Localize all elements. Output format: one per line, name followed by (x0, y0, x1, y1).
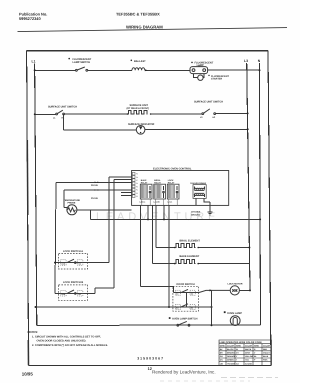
bus N (259, 63, 260, 325)
svg-text:RED: RED (263, 348, 268, 351)
svg-text:TEMPERATURE: TEMPERATURE (64, 199, 81, 202)
svg-text:L2 L1B: L2 L1B (154, 201, 161, 204)
feeder stub to neutral 2 (163, 205, 165, 219)
svg-text:10/95: 10/95 (22, 371, 34, 376)
wire probe out (77, 209, 132, 211)
wire probe P5 to EOC (64, 190, 132, 208)
svg-text:P4: P4 (136, 189, 138, 192)
switch fluorescent lamp switch (68, 58, 70, 60)
svg-text:COLOR: COLOR (227, 344, 234, 347)
wire probe P6 to EOC (55, 182, 132, 293)
svg-text:BLACK: BLACK (227, 348, 234, 351)
EOC electronic oven control box (132, 171, 229, 206)
svg-text:TRACER: TRACER (227, 362, 236, 365)
door switch connector (186, 293, 188, 307)
feeder broil wire (155, 205, 157, 247)
svg-text:COLOR: COLOR (245, 344, 252, 347)
wire neutral return to N (91, 210, 261, 219)
svg-text:L1: L1 (32, 59, 36, 63)
svg-text:GRAY: GRAY (245, 352, 251, 355)
frame left edge darker segments (26, 140, 29, 215)
diagram frame (27, 51, 271, 366)
svg-text:YELLOW: YELLOW (245, 355, 253, 358)
fluorescent starter (194, 74, 205, 78)
feeder stub to neutral 1 (147, 205, 149, 219)
svg-text:Rendered by LeadVenture, Inc.: Rendered by LeadVenture, Inc. (152, 370, 216, 375)
svg-text:L3: L3 (244, 59, 248, 63)
svg-text:BROIL ELEMENT: BROIL ELEMENT (180, 239, 201, 242)
svg-text:P5: P5 (136, 185, 138, 188)
svg-text:1. CIRCUIT SHOWN WITH ALL CONT: 1. CIRCUIT SHOWN WITH ALL CONTROLS SET T… (32, 336, 101, 339)
svg-text:P6 1/B: P6 1/B (91, 184, 98, 187)
wire row A L1 to junction (35, 306, 211, 308)
svg-text:LINE OPERATED WIRE COLOR CODE: LINE OPERATED WIRE COLOR CODE (220, 341, 263, 344)
svg-text:LOCK SWITCH A: LOCK SWITCH A (63, 250, 83, 253)
svg-text:WIRE: WIRE (236, 344, 242, 347)
svg-text:ELECTRONIC OVEN CONTROL: ELECTRONIC OVEN CONTROL (153, 168, 192, 171)
svg-text:GREEN: GREEN (227, 359, 234, 362)
header rule (18, 28, 288, 32)
svg-text:P8: P8 (136, 176, 138, 179)
svg-text:LAMP SWITCH: LAMP SWITCH (73, 61, 91, 64)
svg-text:SURFACE UNIT SWITCH: SURFACE UNIT SWITCH (48, 105, 77, 108)
svg-text:STARTER: STARTER (211, 78, 222, 81)
bus L1 (35, 64, 37, 326)
feeder bake wire (152, 205, 154, 263)
svg-text:WHITE: WHITE (245, 348, 252, 351)
wire lock B riser to EOC (95, 180, 132, 294)
svg-text:PROBE: PROBE (68, 202, 76, 205)
ballast (131, 60, 133, 62)
feeder door switch wire (141, 205, 174, 286)
svg-text:BALLAST: BALLAST (134, 60, 146, 63)
EOC stub wires (121, 193, 132, 196)
wire lock A riser to EOC (109, 177, 132, 263)
svg-text:COM: COM (61, 262, 66, 265)
svg-text:SURFACE UNIT SWITCH: SURFACE UNIT SWITCH (194, 101, 223, 104)
svg-text:WIRE: WIRE (220, 344, 226, 347)
feeder row A wire (168, 205, 170, 306)
wire color code table (219, 340, 272, 365)
svg-text:5995272340: 5995272340 (19, 16, 41, 21)
svg-text:BROWN: BROWN (227, 352, 235, 355)
wire door row1 to lock motor (199, 290, 231, 292)
svg-text:DOOR SWITCH: DOOR SWITCH (177, 283, 195, 286)
wire row B bottom (37, 324, 261, 326)
svg-text:2. COMPONENTS WITH (*) DO NOT: 2. COMPONENTS WITH (*) DO NOT APPEAR IN … (32, 344, 108, 347)
svg-text:P2: P2 (136, 195, 138, 198)
svg-text:WIRING DIAGRAM: WIRING DIAGRAM (126, 25, 163, 30)
fluorescent lamp (191, 62, 193, 64)
svg-text:COM: COM (61, 293, 66, 296)
svg-text:P6: P6 (136, 182, 138, 185)
svg-text:GAUGE: GAUGE (245, 362, 253, 365)
svg-text:315903067: 315903067 (137, 357, 164, 361)
wire row2 surface units (35, 112, 248, 115)
svg-text:TAN: TAN (245, 359, 249, 362)
svg-text:OVEN LAMP SWITCH: OVEN LAMP SWITCH (172, 318, 198, 321)
svg-text:P3: P3 (136, 192, 138, 195)
svg-text:COLOR: COLOR (263, 344, 270, 347)
wire row1 fluorescent circuit (35, 69, 260, 71)
door switch row1 (174, 286, 199, 292)
svg-text:(RT REAR & FRONT): (RT REAR & FRONT) (127, 107, 150, 110)
svg-text:CHASSIS: CHASSIS (191, 211, 201, 214)
svg-text:LOCK MOTOR: LOCK MOTOR (228, 283, 243, 286)
oven lamp (224, 311, 226, 313)
footer faint marks (221, 377, 278, 379)
svg-text:ORANGE: ORANGE (227, 355, 236, 358)
wire row3 surface indicator (63, 114, 65, 130)
svg-text:GROUND: GROUND (191, 213, 201, 216)
EOC terminal strip (132, 172, 135, 197)
svg-text:W: W (236, 348, 238, 351)
svg-text:VIOLET: VIOLET (263, 352, 271, 355)
svg-text:L2 L1: L2 L1 (168, 201, 173, 204)
wire junction vertical (211, 291, 213, 325)
door switch row2 contacts (175, 305, 180, 310)
svg-text:LOCK SWITCH B: LOCK SWITCH B (63, 281, 83, 284)
svg-text:SURFACE UNIT: SURFACE UNIT (130, 104, 149, 107)
svg-text:NOTES:: NOTES: (28, 330, 39, 334)
svg-text:BLUE: BLUE (263, 355, 269, 358)
svg-text:OVEN LAMP: OVEN LAMP (227, 312, 242, 315)
svg-text:TEF355BC & TEF355BX: TEF355BC & TEF355BX (116, 11, 160, 16)
bus L3 (247, 63, 250, 290)
svg-text:PINK: PINK (263, 359, 268, 362)
svg-text:P5 1/B: P5 1/B (91, 197, 98, 200)
svg-text:P7: P7 (136, 179, 138, 182)
svg-text:P9: P9 (136, 173, 138, 176)
svg-text:BAKE ELEMENT: BAKE ELEMENT (180, 255, 200, 258)
svg-text:OVEN DOOR CLOSED AND UNLOCKED.: OVEN DOOR CLOSED AND UNLOCKED. (37, 340, 87, 343)
oven lamp switch (169, 317, 171, 319)
svg-text:WIRE: WIRE (254, 344, 260, 347)
svg-text:L2A L1: L2A L1 (140, 201, 146, 204)
